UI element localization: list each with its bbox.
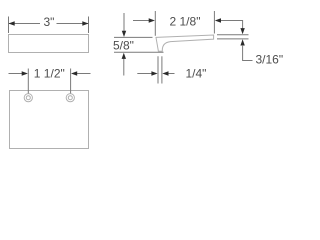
top view body (thin rectangle) [9, 35, 89, 53]
dimension 5/8" lower arrowhead [122, 53, 126, 59]
svg-text:5/8": 5/8" [113, 39, 134, 53]
right screw hole inner ring [68, 96, 72, 100]
dimension 2 1/8" left extension line [154, 11, 156, 36]
dimension 1 1/2" left arrowhead [22, 71, 28, 75]
profile cross-section body (L-shaped lip) [156, 35, 214, 51]
dimension 1 1/2" right arrow line [77, 73, 91, 75]
front view body (rectangle) [10, 91, 89, 149]
dimension 1 1/2" left arrow line [9, 73, 23, 75]
dimension 3" line left segment [9, 23, 40, 25]
dimension 1/4" left arrow line [137, 73, 151, 75]
svg-text:1/4": 1/4" [186, 67, 207, 81]
dimension 1/4" right extension line [161, 56, 163, 83]
dimension 5/8" upper arrow line [123, 13, 125, 31]
left screw hole outer ring [24, 94, 32, 102]
dimension 1/4" left arrowhead [151, 71, 157, 75]
dimension 3" left extension line [8, 17, 10, 34]
left screw hole inner ring [26, 96, 30, 100]
dimension 2 1/8" left arrowhead [149, 18, 155, 22]
dimension 3" left arrowhead [9, 21, 15, 25]
dimension 1/4" right arrowhead [162, 71, 168, 75]
dimension 1/4" left extension line [157, 56, 159, 83]
dimension 2 1/8" left arrow line [133, 20, 149, 22]
dimension 5/8" lower arrow line [123, 59, 125, 76]
dimension 3" right extension line [88, 17, 90, 34]
dimension 3/16" top extension line [217, 34, 249, 36]
dimension 1 1/2" right arrowhead [71, 71, 77, 75]
dimension 1/4" right arrow line [169, 73, 175, 75]
dimension 5/8" bottom extension line [114, 51, 164, 53]
right screw hole outer ring [66, 94, 74, 102]
dimension 3" right arrowhead [82, 21, 88, 25]
dimension 1 1/2" right extension line [70, 69, 72, 94]
dimension 1 1/2" left extension line [27, 69, 29, 94]
dimension 3" line right segment [57, 23, 89, 25]
dimension 2 1/8" right arrowhead [215, 18, 221, 22]
dimension 5/8" upper arrowhead [122, 31, 126, 37]
svg-text:3/16": 3/16" [256, 53, 284, 67]
dimension 3/16" upper arrowhead [240, 28, 244, 34]
svg-text:1 1/2": 1 1/2" [34, 67, 65, 81]
dimension 3/16" lower arrowhead [240, 39, 244, 45]
svg-text:2 1/8": 2 1/8" [170, 15, 201, 29]
dimension 2 1/8" right extension line [213, 11, 215, 34]
dimension 3/16" bottom extension line [217, 38, 249, 40]
svg-text:3": 3" [44, 15, 55, 29]
dimension 5/8" top extension line [114, 36, 153, 38]
dimension 2 1/8" right arrow line joined to 3/16" leader [221, 21, 243, 29]
dimension 3/16" leader line [243, 45, 253, 61]
